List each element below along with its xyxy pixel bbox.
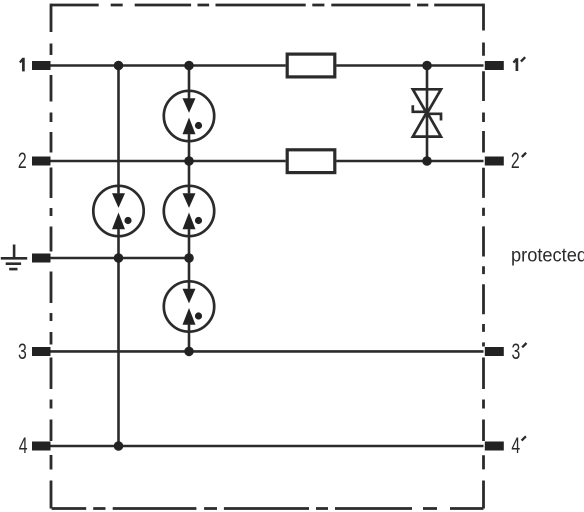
svg-text:2: 2 [18,150,27,174]
junction node line4/col118 [114,441,124,451]
junction node line1/TVS [422,61,432,71]
terminal 1' [485,61,504,70]
junction node line1/col118 [114,61,124,71]
terminal ground [32,254,51,263]
wire vertical column x=118.5 (GDT F2 to line 4) [117,229,120,446]
resistor R (decoupling, line 2) [287,150,335,173]
terminal 2 [32,157,51,166]
wire vertical column x=189 (GDT F3 to GDT F4) [188,229,191,289]
dashed enclosure border: left side [50,4,53,509]
gas discharge tube F3 (line 2 to ground) [164,186,214,236]
wire line 2 left segment [51,160,286,163]
wire vertical column x=189 (GDT F1 to GDT F3) [188,134,191,193]
terminal 1 [32,61,51,70]
terminal 3 [32,347,51,356]
junction node line1/col189 [184,61,194,71]
svg-text:3: 3 [18,341,27,365]
junction node line3/col189 [184,347,194,357]
label terminal 1 [20,58,24,72]
gas discharge tube F2 (line 1 branch to ground) [93,186,143,236]
svg-text:2: 2 [511,150,520,174]
dashed enclosure border: bottom side [52,507,484,510]
terminal 3' [485,347,504,356]
suppressor diode V1 (bidirectional TVS between 1' and 2') [413,89,441,136]
dashed enclosure border: top side [51,4,484,7]
resistor R (decoupling, line 1) [287,54,335,77]
wire line 3 [51,350,484,353]
dashed enclosure border: right side [482,4,485,509]
junction node line2/TVS [422,156,432,166]
wire line 1 left segment [51,64,286,67]
wire vertical column x=189 (line1 to GDT F1) [188,66,191,99]
gas discharge tube F1 (between line 1 and line 2) [164,91,214,141]
label terminal 1' [513,58,517,71]
junction node line2/col189 [184,156,194,166]
ground symbol [1,245,27,270]
terminal 4 [32,442,51,451]
wire vertical column x=427 (TVS branch, line 1' to 2') [426,66,429,162]
wire line 4 [51,445,484,448]
wire vertical column x=189 (GDT F4 to line 3) [188,325,191,352]
wire line 2 right segment [336,160,483,163]
junction node ground/col118 [114,253,124,263]
svg-text:3: 3 [511,341,520,365]
svg-text:4: 4 [19,435,28,459]
wire vertical column x=118.5 (line1 to GDT F2) [117,66,120,194]
terminal 4' [485,442,504,451]
wire ground line [51,257,190,260]
gas discharge tube F4 (ground to line 3) [164,281,214,331]
terminal 2' [485,157,504,166]
svg-text:protected: protected [511,244,584,266]
junction node ground/col189 [184,253,194,263]
svg-text:4: 4 [511,435,520,459]
wire line 1 right segment [336,64,483,67]
